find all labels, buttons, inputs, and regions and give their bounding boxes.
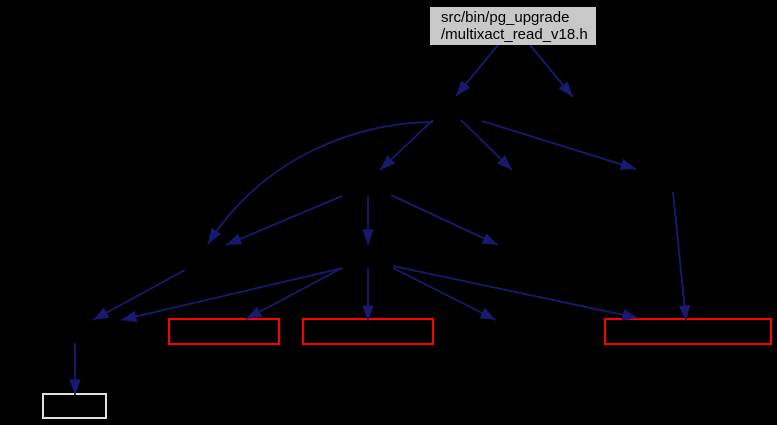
wire edge node3 to red box R1 (246, 268, 342, 319)
svg-text:src/bin/pg_upgrade: src/bin/pg_upgrade (441, 9, 569, 26)
node white box W1 (43, 394, 106, 418)
node red box R3 (605, 319, 771, 344)
node top: src/bin/pg_upgrade/multixact_read_v18.h (430, 7, 596, 45)
wire edge top-node to hidden nodeR (530, 45, 573, 97)
wire edge node3 to red box R2 (367, 268, 369, 321)
svg-text:/multixact_read_v18.h: /multixact_read_v18.h (441, 26, 588, 43)
wire curved edge node1 to hidden nodeA (208, 122, 433, 244)
wire edge node1 to hidden nodeD (482, 121, 636, 169)
node red box R1 (169, 319, 279, 344)
wire edge nodeA to hidden nodeB (93, 270, 185, 320)
wire edge node1 to hidden nodeC (461, 120, 512, 170)
wire edge node2 to hidden node3 (367, 196, 369, 245)
wire edge nodeD to red box R3 (673, 192, 686, 321)
wire edge top-node to hidden node1 (456, 45, 498, 96)
node red box R2 (303, 319, 433, 344)
wire edge nodeB to white box W1 (74, 343, 76, 395)
wire edge node2 to hidden nodeA (226, 196, 342, 245)
wire edge node3 to hidden nodeB (121, 268, 343, 320)
wire edge node3 to hidden nodeF (393, 268, 496, 320)
wire edge node1 to hidden node2 (380, 120, 433, 170)
wire edge node3 to red box R3 (393, 266, 638, 318)
wire edge node2 to hidden nodeE (391, 195, 498, 245)
